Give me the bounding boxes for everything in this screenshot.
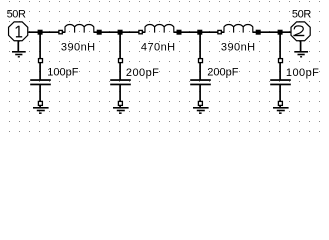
svg-text:50R: 50R — [292, 9, 311, 21]
svg-text:100pF: 100pF — [47, 67, 78, 79]
svg-text:470nH: 470nH — [141, 41, 176, 53]
svg-text:100pF: 100pF — [286, 67, 319, 79]
svg-text:390nH: 390nH — [221, 41, 256, 53]
svg-text:390nH: 390nH — [61, 41, 96, 53]
svg-text:200pF: 200pF — [126, 67, 159, 79]
svg-text:50R: 50R — [7, 9, 26, 21]
svg-text:200pF: 200pF — [207, 67, 238, 79]
